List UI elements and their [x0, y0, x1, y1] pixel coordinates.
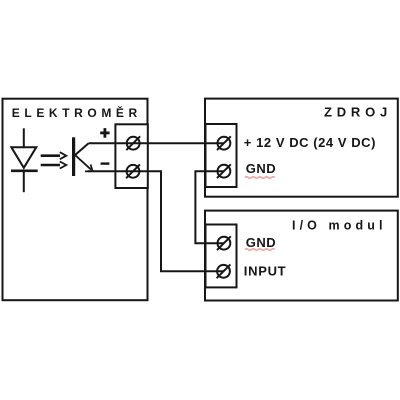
- wire + : X1 pin1 to X2 +12V: [89, 142, 224, 144]
- terminal X1 pin2 (screw): [126, 164, 140, 178]
- label - (polarity at X1 pin2): [101, 162, 110, 164]
- terminal block X2 (zdroj): [206, 124, 237, 187]
- wire GND : X2 GND down to X3 GND: [195, 171, 224, 243]
- svg-text:INPUT: INPUT: [244, 264, 286, 279]
- optocoupler LED: cathode bar: [11, 170, 38, 173]
- optocoupler LED: anode lead: [23, 128, 25, 148]
- terminal block X1 (elektroměr impulse output): [115, 124, 147, 188]
- box I/O modul enclosure: [205, 211, 398, 301]
- spellcheck squiggle under GND (zdroj): [245, 177, 275, 179]
- box ELEKTROMER (electricity meter enclosure): [3, 99, 148, 301]
- optocoupler LED: cathode lead: [23, 171, 25, 192]
- phototransistor Q1: collector lead: [75, 143, 89, 155]
- terminal X3 pin2 INPUT (screw): [217, 264, 231, 278]
- terminal X2 pin1 +12V (screw): [217, 136, 231, 150]
- light arrow 2: [41, 162, 67, 169]
- spellcheck squiggle under GND (I/O modul): [245, 249, 275, 251]
- light arrow 1: [41, 152, 67, 159]
- box ZDROJ (power supply enclosure): [205, 99, 398, 197]
- label + (polarity at X1 pin1): [100, 128, 109, 138]
- terminal block X3 (I/O modul): [206, 225, 237, 288]
- svg-text:GND: GND: [246, 235, 276, 250]
- wire - : X1 pin2 down to X3 INPUT: [88, 171, 224, 271]
- svg-text:I/O modul: I/O modul: [292, 218, 387, 232]
- svg-text:ELEKTROMĚR: ELEKTROMĚR: [12, 105, 142, 120]
- phototransistor Q1: base bar: [72, 137, 75, 176]
- terminal X1 pin1 (screw): [126, 136, 140, 150]
- terminal X3 pin1 GND (screw): [217, 236, 231, 250]
- svg-text:GND: GND: [246, 161, 276, 176]
- svg-text:ZDROJ: ZDROJ: [324, 104, 392, 119]
- terminal X2 pin2 GND (screw): [217, 164, 231, 178]
- phototransistor Q1: emitter lead with arrow: [75, 155, 93, 172]
- optocoupler LED: triangle: [11, 147, 36, 168]
- svg-text:+ 12 V DC (24 V DC): + 12 V DC (24 V DC): [244, 135, 376, 150]
